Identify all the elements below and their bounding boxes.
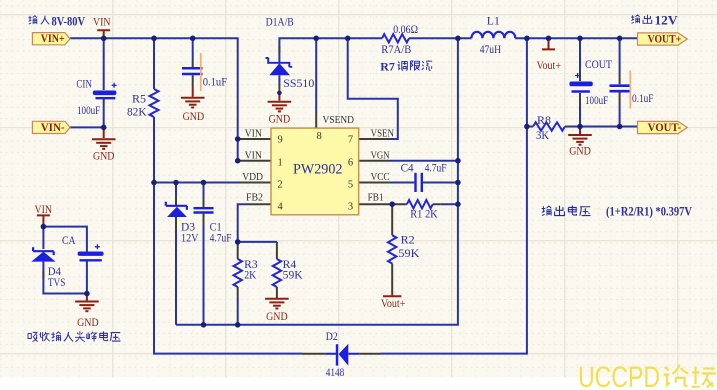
svg-text:9: 9: [278, 134, 283, 145]
D3 leads: [175, 196, 177, 230]
diode D3 12V zener: [166, 202, 187, 217]
svg-text:SS510: SS510: [283, 78, 314, 90]
wire D1 lower lead: [278, 75, 280, 85]
C1 leads: [203, 198, 205, 226]
junction node VDD / C1: [201, 180, 207, 186]
svg-text:12V: 12V: [655, 12, 679, 27]
svg-text:R7A/B: R7A/B: [381, 44, 411, 56]
svg-text:VGN: VGN: [371, 149, 390, 161]
svg-text:3K: 3K: [536, 130, 550, 142]
svg-text:82K: 82K: [127, 107, 147, 119]
junction node VIN- / CIN: [101, 125, 107, 131]
junction node SW / bus: [455, 36, 461, 42]
svg-text:L1: L1: [487, 15, 500, 27]
svg-text:CA: CA: [62, 235, 76, 247]
port VOUT+: [638, 33, 688, 46]
svg-text:4.7uF: 4.7uF: [210, 232, 232, 244]
junction node SW bus / R1: [455, 201, 461, 207]
svg-text:59K: 59K: [283, 269, 304, 281]
svg-text:8: 8: [317, 131, 322, 142]
wire 0.1uF output branch: [619, 38, 621, 126]
text absorb input spike note: [28, 332, 38, 341]
port VIN-: [32, 121, 70, 134]
junction node VOUT / Vout+ power: [546, 36, 552, 42]
svg-text:D4: D4: [48, 266, 61, 278]
resistor R1 2K: [407, 200, 433, 208]
wire R5/VDD/D2 left vertical and bottom run: [154, 38, 302, 353]
text output voltage formula: [542, 206, 552, 216]
pin name labels: [242, 114, 394, 204]
COUT leads: [579, 70, 581, 104]
junction node VOUT- / COUT: [577, 124, 583, 130]
svg-text:100uF: 100uF: [77, 105, 100, 117]
wire VGN: [390, 160, 458, 162]
op-amp U1 PW2902 body: [271, 128, 359, 215]
svg-text:4: 4: [278, 202, 284, 213]
wire VIN+ rail top: [70, 38, 238, 160]
junction node rail / R3: [235, 322, 241, 328]
output 0.1uF leads: [619, 73, 621, 104]
junction node VDD / R5: [151, 180, 157, 186]
ground under CIN: [103, 127, 105, 138]
svg-text:6: 6: [348, 157, 353, 168]
text 输入8V-80V: [28, 16, 37, 24]
svg-text:D2: D2: [326, 331, 338, 343]
svg-text:0.1uF: 0.1uF: [203, 77, 227, 89]
R1 leads: [392, 203, 441, 205]
diode D2 4148: [325, 344, 359, 366]
bottom white band: [0, 378, 717, 390]
junction node FB2 / R3 / R4: [235, 239, 241, 245]
svg-text:(1+R2/R1) *0.397V: (1+R2/R1) *0.397V: [606, 203, 692, 218]
wire FB1 to R1 to SW bus: [441, 203, 458, 205]
svg-text:0.06Ω: 0.06Ω: [393, 24, 418, 36]
wire C1 top stub from VDD: [203, 183, 205, 199]
svg-text:VCC: VCC: [371, 171, 390, 183]
resistor R4 59K: [273, 259, 281, 287]
svg-text:2: 2: [278, 179, 283, 190]
resistor R5 82K: [150, 89, 159, 117]
svg-text:VOUT-: VOUT-: [648, 122, 682, 134]
wire COUT branch: [579, 38, 581, 126]
diode D4 TVS: [31, 247, 55, 261]
svg-text:R5: R5: [132, 94, 146, 106]
svg-text:C4: C4: [401, 162, 414, 174]
svg-text:R2: R2: [401, 235, 415, 247]
D4 lower dark stub: [42, 272, 44, 280]
svg-text:VIN: VIN: [245, 149, 262, 161]
svg-text:VSEND: VSEND: [323, 114, 355, 126]
junction node SW bus / VGN: [455, 158, 461, 164]
junction node VOUT- / R8: [524, 124, 530, 130]
capacitor 0.1uF input: [182, 68, 203, 74]
svg-text:47uH: 47uH: [480, 44, 501, 56]
svg-text:R1 2K: R1 2K: [410, 208, 438, 220]
power port VIN at TVS: [37, 215, 50, 226]
wire FB2 corner down to R3/R4 node: [238, 204, 277, 242]
junction node VIN tvs: [41, 224, 47, 230]
power port Vout+ top: [542, 38, 555, 49]
svg-text:VIN+: VIN+: [41, 33, 65, 45]
IC left pin stubs 9,1,2,4: [238, 139, 271, 204]
svg-text:GND: GND: [183, 111, 205, 123]
port VIN+: [32, 33, 70, 46]
IC right pin stubs 7,6,5,3: [359, 139, 393, 204]
ground under COUT: [579, 127, 581, 135]
capacitor C1 4.7uF: [194, 208, 214, 212]
svg-text:R8: R8: [537, 115, 551, 127]
wire SW bus vertical and bottom rail to D3/C1/R3: [176, 38, 458, 325]
junction node VIN pin9: [235, 136, 241, 142]
ground under R4: [276, 297, 278, 300]
junction D1 / GND: [277, 91, 282, 96]
svg-text:0.1uF: 0.1uF: [632, 93, 654, 105]
svg-text:D1A/B: D1A/B: [266, 17, 294, 29]
R3 leads: [237, 242, 239, 297]
junction node VIN+ / VIN power: [101, 36, 107, 42]
D1 pin stubs: [278, 46, 280, 93]
svg-text:8V-80V: 8V-80V: [52, 13, 86, 28]
IC top pin stub 8: [315, 113, 317, 128]
svg-text:2K: 2K: [244, 269, 257, 281]
svg-text:VDD: VDD: [242, 171, 263, 183]
power port Vout+ at R2: [383, 292, 401, 297]
input 0.1uF leads: [192, 61, 194, 87]
svg-text:Vout+: Vout+: [537, 60, 562, 72]
junction node CA / GND: [84, 291, 90, 297]
junction node SW / VSEN tap: [345, 36, 351, 42]
svg-text:GND: GND: [93, 151, 115, 163]
svg-text:4.7uF: 4.7uF: [425, 162, 447, 174]
junction node VDD / D3: [173, 180, 179, 186]
orange mark output 0.1uF: [629, 71, 631, 109]
junction node rail / C1: [201, 322, 207, 328]
svg-text:5: 5: [348, 179, 353, 190]
svg-text:GND: GND: [269, 114, 291, 126]
R4 leads: [276, 242, 278, 298]
junction node VIN+ / C-0.1uF: [190, 36, 196, 42]
resistor R2 59K: [388, 235, 396, 263]
resistor R8 3K: [533, 122, 565, 130]
svg-text:UCCPD: UCCPD: [578, 361, 660, 390]
junction node VOUT / C-0.1uF: [617, 36, 623, 42]
wire D3 bottom to rail: [175, 230, 177, 325]
wire 0.1uF input branch: [192, 38, 194, 61]
R8 leads: [527, 126, 570, 128]
wire VSEN sense loop: [348, 38, 398, 139]
svg-text:VIN: VIN: [35, 204, 53, 216]
D2 leads: [302, 353, 381, 355]
svg-text:CIN: CIN: [76, 79, 92, 91]
wire D3 top stub from VDD: [175, 183, 177, 197]
wire C1 bottom to rail: [203, 226, 205, 325]
junction node VOUT / COUT: [577, 36, 583, 42]
svg-text:1: 1: [278, 157, 283, 168]
wire SW rail top (D1 corner to L1 and after L1 to VOUT+ port): [279, 38, 637, 62]
junction node VOUT / D2 riser: [524, 36, 530, 42]
svg-text:R7: R7: [380, 59, 395, 73]
svg-text:VIN: VIN: [245, 128, 262, 140]
port VOUT-: [638, 121, 688, 134]
svg-text:GND: GND: [77, 317, 99, 329]
R2 leads: [391, 204, 393, 291]
ground under D1: [278, 93, 280, 101]
capacitor COUT 100uF polarized: [569, 73, 592, 92]
svg-text:COUT: COUT: [585, 59, 612, 71]
junction node SW bus / C4: [455, 180, 461, 186]
capacitor CA polarized: [78, 244, 104, 260]
inductor L1 47uH: [471, 32, 515, 39]
ground under input 0.1uF: [192, 87, 194, 97]
svg-text:VIN: VIN: [93, 17, 111, 29]
capacitor C4 4.7uF: [416, 173, 422, 192]
wire R3 bottom to rail: [237, 297, 239, 325]
wire VCC to C4: [390, 182, 458, 184]
svg-text:100uF: 100uF: [585, 95, 608, 107]
svg-text:GND: GND: [266, 311, 288, 323]
svg-text:Vout+: Vout+: [381, 298, 406, 310]
svg-text:VOUT+: VOUT+: [648, 34, 682, 46]
svg-text:PW2902: PW2902: [293, 162, 343, 178]
svg-text:GND: GND: [569, 146, 591, 158]
resistor R7A/B 0.06ohm: [382, 34, 409, 42]
wire TVS/CA loop: [43, 227, 87, 294]
svg-text:3: 3: [348, 202, 353, 213]
wire D2 right to output vertical: [381, 38, 527, 353]
power port VIN top: [97, 30, 110, 38]
wire pin8 VSEND drop: [315, 38, 317, 113]
junction node SW / pin8: [313, 36, 319, 42]
svg-text:VSEN: VSEN: [371, 128, 394, 140]
svg-text:TVS: TVS: [48, 277, 66, 289]
svg-text:7: 7: [348, 134, 353, 145]
wire CIN branch + VIN- wire: [70, 38, 104, 127]
diode D1A/B SS510 schottky: [266, 58, 293, 76]
svg-text:12V: 12V: [181, 232, 199, 244]
svg-text:VIN-: VIN-: [41, 122, 65, 134]
svg-text:59K: 59K: [398, 248, 420, 260]
ground under CA: [86, 294, 88, 301]
junction node FB1 / R2: [389, 201, 395, 207]
pin numbers: [278, 131, 354, 213]
junction node VIN pin1: [235, 158, 241, 164]
orange mark input 0.1uF: [200, 53, 202, 91]
junction node VIN+ / R5: [151, 36, 157, 42]
junction node VOUT- / C-0.1uF: [617, 124, 623, 130]
svg-text:FB2: FB2: [246, 192, 263, 204]
value and designator labels: [48, 15, 654, 379]
wire VOUT- run: [570, 126, 638, 128]
svg-text:FB1: FB1: [368, 192, 384, 204]
capacitor 0.1uF output: [610, 86, 631, 92]
capacitor CIN 100uF polarized: [93, 83, 117, 98]
svg-text:4148: 4148: [326, 367, 345, 379]
resistor R3 2K: [234, 259, 242, 287]
text 输出12V: [631, 15, 640, 23]
wire VDD line: [154, 182, 240, 184]
